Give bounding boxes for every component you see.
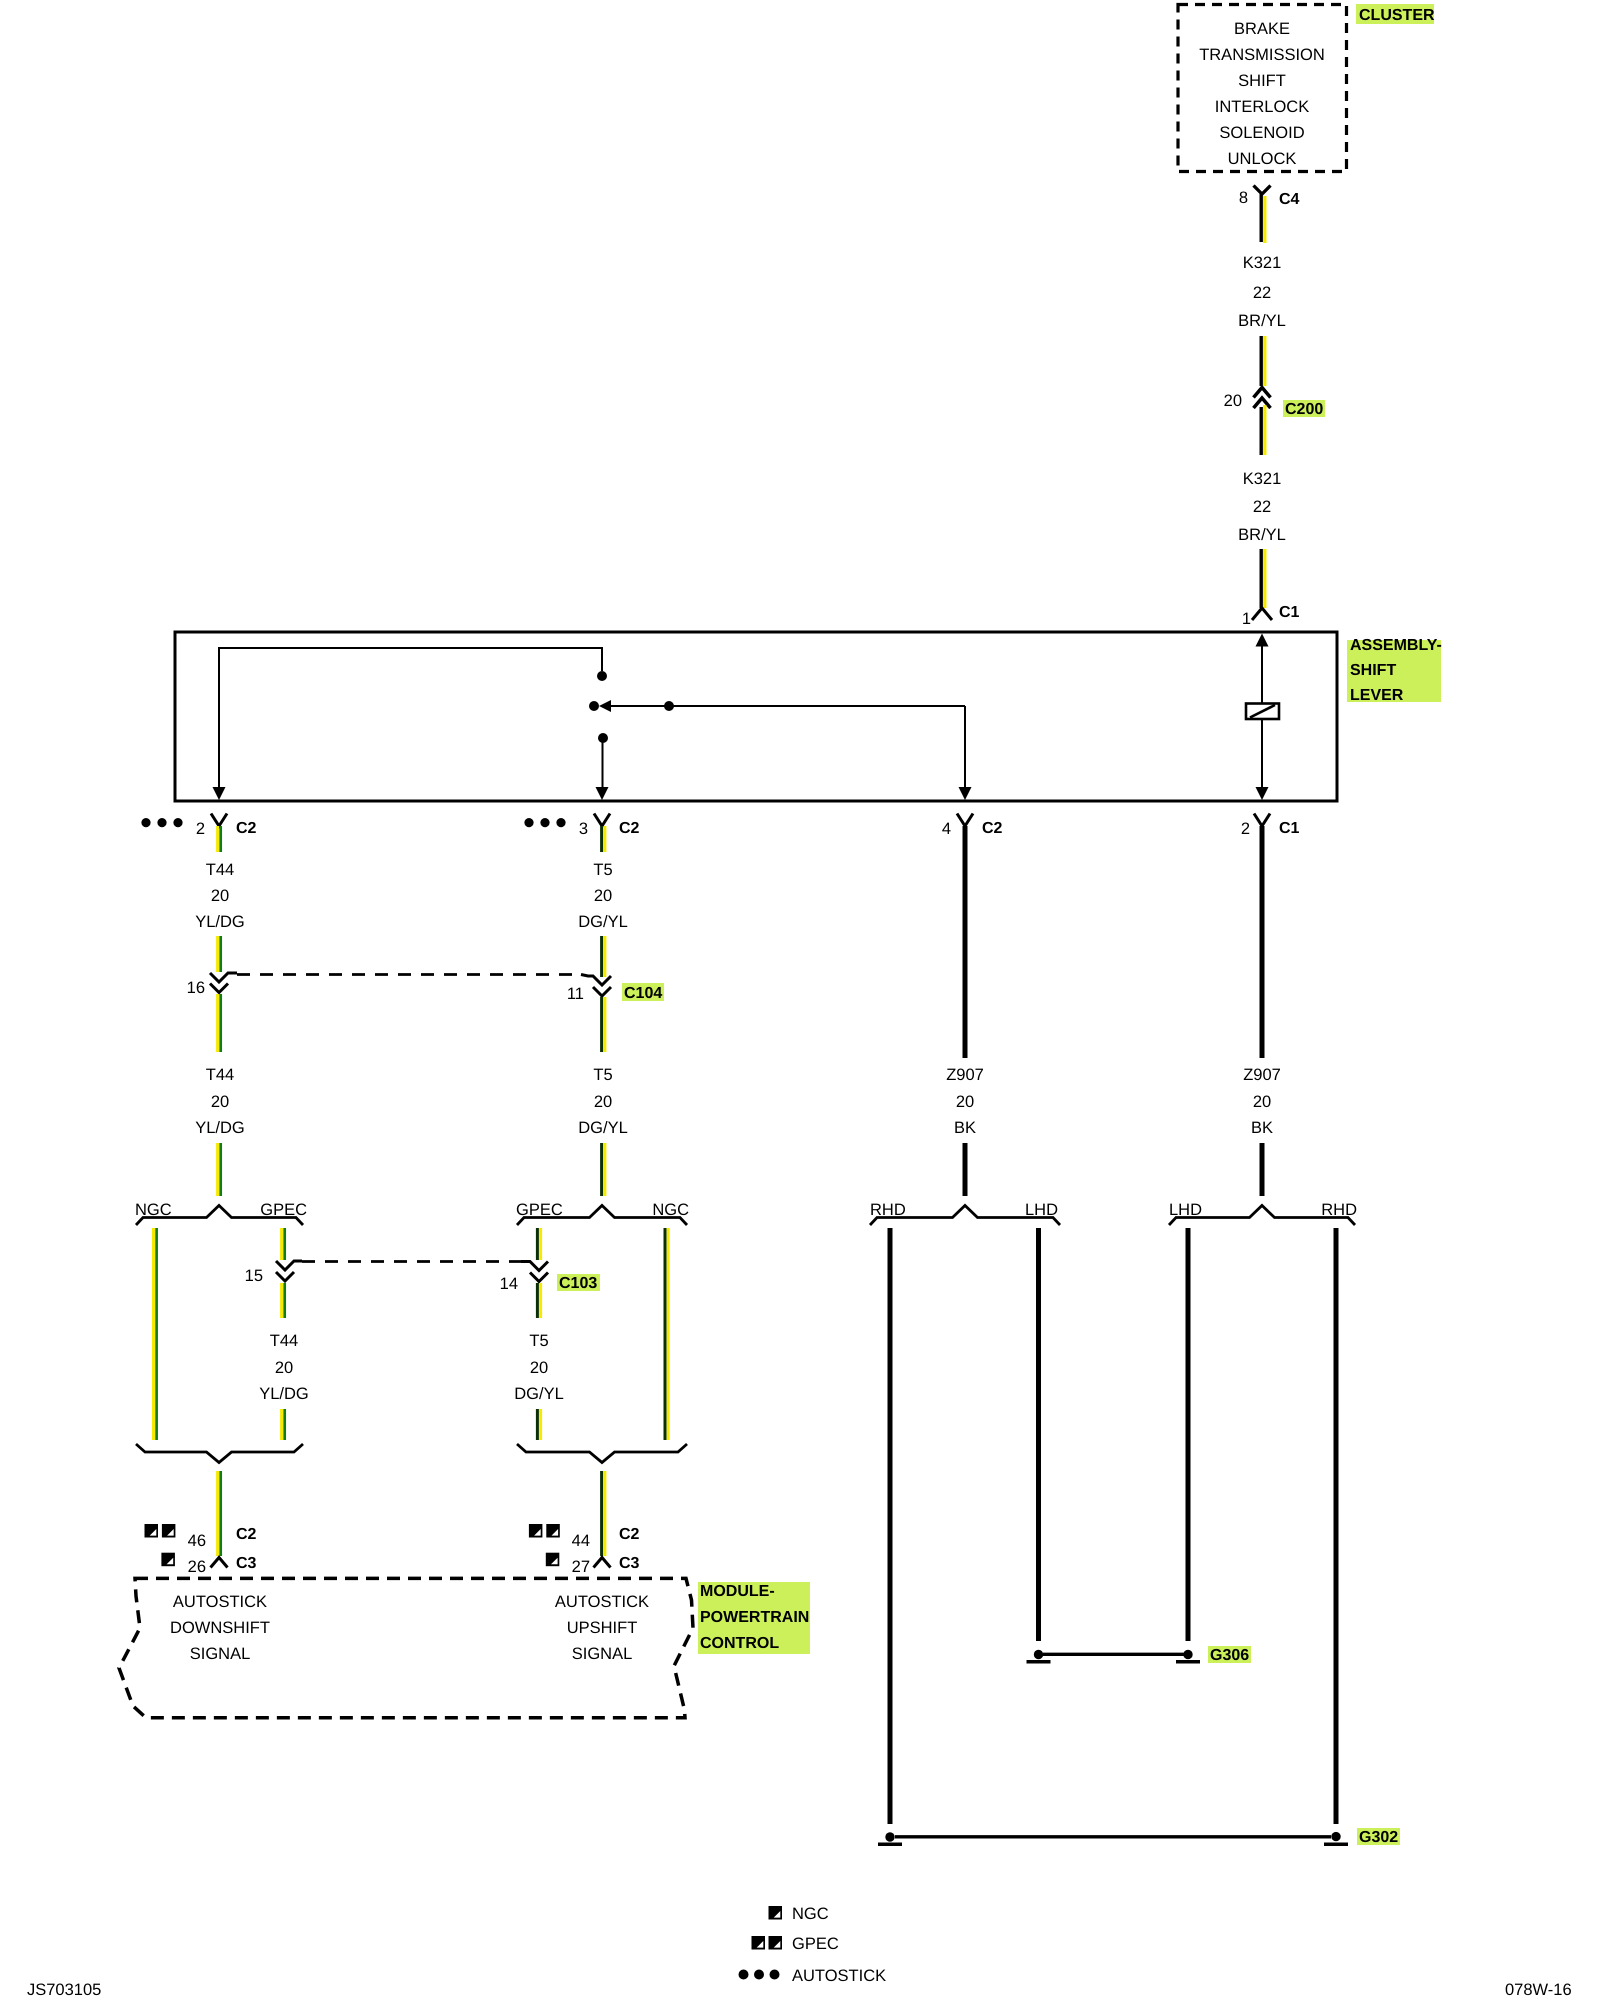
svg-text:T44: T44 — [206, 861, 234, 879]
svg-text:46: 46 — [188, 1532, 206, 1550]
wire Z907b seg2 — [1260, 1143, 1265, 1196]
svg-text:11: 11 — [567, 985, 584, 1003]
wire to module pin 26 (YL/DG) — [216, 1471, 219, 1556]
branch GPEC wire seg2 — [280, 1283, 283, 1318]
brace split RHD/LHD (group A) — [870, 1206, 1060, 1226]
wire T44 seg3 — [216, 1143, 219, 1196]
inline connector C103 pin 14 (double chevron down) — [521, 1262, 548, 1271]
svg-text:C1: C1 — [1279, 604, 1300, 621]
svg-text:22: 22 — [1253, 498, 1271, 516]
connector C3 pin 27 (male, into module) — [594, 1558, 611, 1568]
arrow at pin 2 exit — [213, 787, 226, 800]
svg-text:DG/YL: DG/YL — [578, 1119, 628, 1137]
svg-text:CLUSTER: CLUSTER — [1359, 7, 1435, 24]
svg-text:20: 20 — [594, 1093, 612, 1111]
svg-text:POWERTRAIN: POWERTRAIN — [700, 1609, 809, 1626]
node: downshift contact — [598, 733, 608, 743]
brace split GPEC/NGC (right group) — [517, 1206, 687, 1226]
svg-text:Z907: Z907 — [946, 1066, 984, 1084]
svg-text:T44: T44 — [270, 1332, 298, 1350]
svg-text:T5: T5 — [529, 1332, 548, 1350]
arrow at pin 4 exit — [959, 787, 972, 800]
svg-text:C1: C1 — [1279, 820, 1300, 837]
connector C1 pin 1 (male, into shift lever box) — [1252, 608, 1272, 620]
label CLUSTER — [1356, 4, 1434, 24]
svg-text:2: 2 — [196, 820, 205, 838]
arrow at pin 3 exit — [596, 787, 609, 800]
wire T5 seg1b — [600, 936, 603, 977]
label MODULE-POWERTRAIN CONTROL — [698, 1582, 810, 1654]
branch GPEC wire seg2 — [536, 1283, 539, 1318]
svg-text:BRAKE: BRAKE — [1234, 20, 1290, 38]
svg-text:UPSHIFT: UPSHIFT — [567, 1619, 638, 1637]
node: wiper pole contact — [589, 701, 599, 711]
svg-text:K321: K321 — [1243, 470, 1282, 488]
svg-text:26: 26 — [188, 1558, 206, 1576]
assembly shift lever box — [175, 632, 1337, 801]
branch LHD wire (BK) to G306 — [1036, 1228, 1041, 1641]
pin row: 3 C2 with autostick dots — [524, 818, 533, 827]
svg-text:G302: G302 — [1359, 1829, 1398, 1846]
svg-text:C2: C2 — [236, 1526, 257, 1543]
wire to module pin 27 (DG/YL) — [600, 1471, 603, 1556]
svg-text:YL/DG: YL/DG — [195, 1119, 245, 1137]
wire label T44 20 YL/DG (top block) — [195, 861, 245, 931]
ground G306 (right leg) — [1183, 1650, 1192, 1659]
wire label K321 22 BR/YL (lower) — [1238, 470, 1286, 544]
cluster box text — [1199, 20, 1325, 168]
connector C4 pin 8 (female Y) — [1254, 186, 1271, 195]
svg-text:20: 20 — [1253, 1093, 1271, 1111]
wire joining G306 legs — [1043, 1653, 1184, 1656]
svg-text:16: 16 — [187, 979, 205, 997]
svg-text:3: 3 — [579, 820, 588, 838]
svg-text:C2: C2 — [619, 1526, 640, 1543]
wire T5 seg1 (DG/YL) from pin 3 — [600, 826, 603, 852]
svg-text:GPEC: GPEC — [516, 1201, 563, 1219]
ground G302 (right leg) — [1331, 1832, 1340, 1841]
svg-text:CONTROL: CONTROL — [700, 1635, 779, 1652]
svg-text:AUTOSTICK: AUTOSTICK — [173, 1593, 267, 1611]
wire K321 segment 4 — [1259, 549, 1262, 608]
svg-text:C2: C2 — [236, 820, 257, 837]
svg-text:DG/YL: DG/YL — [578, 913, 628, 931]
svg-text:44: 44 — [572, 1532, 590, 1550]
wire: solenoid to pin 2 C1 — [1261, 719, 1263, 797]
svg-text:T5: T5 — [593, 1066, 612, 1084]
svg-text:C104: C104 — [624, 985, 662, 1002]
wire label Z907 20 BK (left) — [946, 1066, 984, 1137]
ground G306 (left leg) — [1034, 1650, 1043, 1659]
svg-text:K321: K321 — [1243, 254, 1282, 272]
inline connector C104 pin 16 (double chevron down) — [210, 973, 237, 982]
svg-text:LHD: LHD — [1169, 1201, 1202, 1219]
branch GPEC wire seg3 — [280, 1409, 283, 1440]
module text: autostick upshift signal — [555, 1593, 649, 1663]
svg-text:C3: C3 — [619, 1555, 640, 1572]
svg-text:078W-16: 078W-16 — [1505, 1981, 1572, 1999]
svg-text:AUTOSTICK: AUTOSTICK — [792, 1967, 886, 1985]
svg-text:15: 15 — [245, 1267, 263, 1285]
module powertrain control box (dashed, torn edges) — [119, 1578, 693, 1717]
inline connector C103 pin 15 (double chevron down) — [276, 1261, 302, 1270]
svg-text:DOWNSHIFT: DOWNSHIFT — [170, 1619, 270, 1637]
wire K321 segment 2 — [1259, 336, 1262, 386]
inline connector C104 pin 11 (double chevron down) — [581, 975, 611, 986]
svg-text:JS703105: JS703105 — [27, 1981, 101, 1999]
module text: autostick downshift signal — [170, 1593, 270, 1663]
branch GPEC wire seg3 — [536, 1409, 539, 1440]
svg-text:14: 14 — [500, 1275, 518, 1293]
svg-text:YL/DG: YL/DG — [195, 913, 245, 931]
wire Z907 seg2 — [963, 1143, 968, 1196]
branch LHD wire (BK) to G306 — [1186, 1228, 1191, 1641]
wire T44 seg2 — [216, 994, 219, 1052]
wire label T44 20 YL/DG (upper) — [195, 1066, 245, 1137]
svg-text:BR/YL: BR/YL — [1238, 526, 1286, 544]
svg-text:G306: G306 — [1210, 1647, 1249, 1664]
svg-text:BR/YL: BR/YL — [1238, 312, 1286, 330]
svg-text:SIGNAL: SIGNAL — [190, 1645, 251, 1663]
svg-text:AUTOSTICK: AUTOSTICK — [555, 1593, 649, 1611]
svg-text:UNLOCK: UNLOCK — [1228, 150, 1297, 168]
wire label Z907 20 BK (right) — [1243, 1066, 1281, 1137]
label G302 — [1357, 1828, 1400, 1845]
wire T5 seg2 — [600, 997, 603, 1052]
svg-text:Z907: Z907 — [1243, 1066, 1281, 1084]
svg-text:20: 20 — [275, 1359, 293, 1377]
wire label K321 22 BR/YL (upper) — [1238, 254, 1286, 330]
arrow at pin 2 C1 exit — [1256, 787, 1269, 800]
switch wiper arm with left arrow — [607, 705, 965, 707]
pin row: 2 C2 with autostick dots — [141, 818, 150, 827]
wire T44 seg1 (YL/DG) from pin 2 — [216, 826, 219, 852]
svg-text:LHD: LHD — [1025, 1201, 1058, 1219]
svg-text:BK: BK — [954, 1119, 976, 1137]
svg-text:20: 20 — [211, 1093, 229, 1111]
node: wiper pivot — [664, 701, 674, 711]
svg-text:2: 2 — [1241, 820, 1250, 838]
svg-text:YL/DG: YL/DG — [259, 1385, 309, 1403]
brace split NGC/GPEC (left group) — [136, 1206, 303, 1226]
node: upshift contact — [597, 671, 607, 681]
wire: downshift contact to pin 3 — [602, 740, 604, 797]
svg-text:RHD: RHD — [870, 1201, 906, 1219]
wire label T5 20 DG/YL (lower) — [514, 1332, 564, 1403]
svg-text:SOLENOID: SOLENOID — [1219, 124, 1304, 142]
wire K321 segment 3 — [1259, 407, 1262, 455]
inline connector C200 pin 20 (double chevron up) — [1254, 388, 1271, 398]
brace split LHD/RHD (group B) — [1169, 1206, 1355, 1226]
module pin row: GPEC squares 46 C2 (left) — [145, 1524, 257, 1550]
brace merge (right group) — [517, 1444, 687, 1463]
svg-text:C2: C2 — [982, 820, 1003, 837]
wire K321 segment 1 (BR/YL) — [1259, 194, 1262, 242]
wire T5 seg3 — [600, 1143, 603, 1196]
svg-text:22: 22 — [1253, 284, 1271, 302]
svg-text:C200: C200 — [1285, 401, 1323, 418]
svg-text:C3: C3 — [236, 1555, 257, 1572]
module pin row: NGC square 26 C3 (left) — [161, 1553, 256, 1576]
module pin row: NGC square 27 C3 (right) — [546, 1553, 640, 1576]
svg-text:RHD: RHD — [1321, 1201, 1357, 1219]
ground G302 (left leg) — [885, 1832, 894, 1841]
label G306 — [1208, 1646, 1251, 1663]
svg-text:NGC: NGC — [652, 1201, 689, 1219]
svg-text:MODULE-: MODULE- — [700, 1583, 775, 1600]
svg-text:SHIFT: SHIFT — [1350, 662, 1396, 679]
cluster component box (dashed) — [1178, 5, 1347, 172]
wire Z907b seg1 (BK) from pin 2 C1 — [1260, 826, 1265, 1058]
wire label T5 20 DG/YL (upper) — [578, 1066, 628, 1137]
svg-text:1: 1 — [1242, 610, 1251, 628]
svg-text:BK: BK — [1251, 1119, 1273, 1137]
svg-text:20: 20 — [530, 1359, 548, 1377]
wire label T44 20 YL/DG (lower) — [259, 1332, 309, 1403]
svg-text:TRANSMISSION: TRANSMISSION — [1199, 46, 1325, 64]
wire label T5 20 DG/YL (top block) — [578, 861, 628, 931]
svg-text:20: 20 — [1224, 392, 1242, 410]
module pin row: GPEC squares 44 C2 (right) — [529, 1524, 640, 1550]
svg-text:SHIFT: SHIFT — [1238, 72, 1286, 90]
wire T44 seg1b — [216, 936, 219, 972]
svg-text:C2: C2 — [619, 820, 640, 837]
solenoid (interlock actuator) — [1246, 704, 1279, 720]
legend: AUTOSTICK symbol — [739, 1970, 749, 1980]
svg-text:LEVER: LEVER — [1350, 687, 1404, 704]
svg-text:20: 20 — [956, 1093, 974, 1111]
branch NGC wire (DG/YL) — [664, 1228, 667, 1440]
svg-text:8: 8 — [1239, 189, 1248, 207]
svg-text:C4: C4 — [1279, 191, 1300, 208]
svg-text:4: 4 — [942, 820, 951, 838]
dashed connector tie line C103 — [302, 1260, 521, 1263]
legend: GPEC symbol — [752, 1936, 766, 1950]
wire: wiper to pin 4 — [964, 706, 966, 797]
svg-text:T44: T44 — [206, 1066, 234, 1084]
connector C3 pin 26 (male, into module) — [211, 1558, 228, 1568]
svg-text:GPEC: GPEC — [260, 1201, 307, 1219]
wire joining G302 legs — [895, 1835, 1331, 1838]
svg-text:27: 27 — [572, 1558, 590, 1576]
branch NGC wire (YL/DG) — [152, 1228, 155, 1440]
svg-text:GPEC: GPEC — [792, 1935, 839, 1953]
svg-text:ASSEMBLY-: ASSEMBLY- — [1350, 637, 1442, 654]
svg-text:20: 20 — [594, 887, 612, 905]
svg-text:20: 20 — [211, 887, 229, 905]
brace merge (left group) — [136, 1444, 303, 1463]
branch RHD wire (BK) to G302 — [888, 1228, 893, 1824]
dashed connector tie line C104 — [237, 973, 581, 976]
wire: upshift contact to pin 2 — [219, 648, 602, 797]
svg-text:DG/YL: DG/YL — [514, 1385, 564, 1403]
arrow entering from pin 1 (up) — [1256, 634, 1269, 647]
svg-text:NGC: NGC — [792, 1905, 829, 1923]
svg-text:C103: C103 — [559, 1275, 597, 1292]
wire Z907 seg1 (BK) from pin 4 — [963, 826, 968, 1058]
branch RHD wire (BK) to G302 — [1334, 1228, 1339, 1824]
legend: NGC symbol — [769, 1906, 783, 1920]
branch GPEC wire seg1 (DG/YL) — [536, 1228, 539, 1260]
svg-text:INTERLOCK: INTERLOCK — [1215, 98, 1309, 116]
label ASSEMBLY-SHIFT LEVER — [1347, 640, 1441, 702]
wire: pin 1 to solenoid — [1261, 640, 1263, 703]
svg-text:SIGNAL: SIGNAL — [572, 1645, 633, 1663]
svg-text:T5: T5 — [593, 861, 612, 879]
branch GPEC wire seg1 — [280, 1228, 283, 1260]
svg-text:NGC: NGC — [135, 1201, 172, 1219]
